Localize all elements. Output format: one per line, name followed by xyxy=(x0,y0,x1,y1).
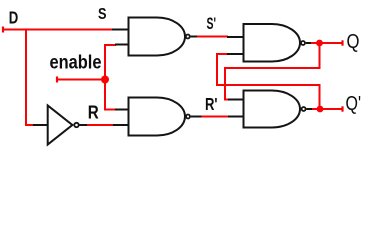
wire R' from gate3 to gate4 xyxy=(201,116,229,118)
svg-text:R: R xyxy=(88,103,99,123)
wire Q' output xyxy=(311,108,343,110)
node D input cap xyxy=(2,27,4,33)
svg-text:S': S' xyxy=(207,14,217,33)
svg-text:R': R' xyxy=(205,94,218,114)
NAND gate U1 top-left xyxy=(112,18,197,56)
wire R from inverter to gate3 xyxy=(86,124,114,126)
svg-text:D: D xyxy=(9,8,18,28)
svg-text:Q: Q xyxy=(347,31,360,53)
junction Q node xyxy=(316,40,323,47)
junction Q' node xyxy=(317,106,324,113)
wire Q' feedback to gate2 input xyxy=(217,54,320,109)
svg-text:S: S xyxy=(98,6,107,23)
wire S' from gate1 to gate2 xyxy=(196,36,228,38)
NAND gate U2 top-right xyxy=(227,24,311,62)
node Q' output cap xyxy=(341,106,343,111)
junction enable node xyxy=(101,76,109,84)
wire enable horizontal xyxy=(56,79,105,81)
wire enable vertical to gate1 and gate3 xyxy=(105,45,116,110)
wire Q feedback to gate4 input xyxy=(225,43,320,100)
svg-text:enable: enable xyxy=(50,53,102,74)
svg-text:Q': Q' xyxy=(346,93,362,115)
NAND gate U3 bottom-left xyxy=(113,98,202,136)
inverter U5 xyxy=(33,106,87,145)
NAND gate U4 bottom-right xyxy=(228,91,312,128)
wire D input horizontal xyxy=(2,29,113,31)
node enable input cap xyxy=(56,77,58,83)
wire D branch vertical to inverter xyxy=(26,30,34,126)
node Q output cap xyxy=(341,40,343,45)
wire Q output xyxy=(310,42,343,44)
